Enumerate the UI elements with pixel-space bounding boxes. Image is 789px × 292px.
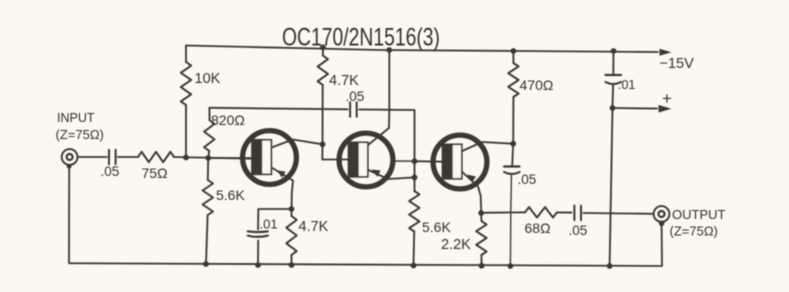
svg-text:5.6K: 5.6K [216, 187, 245, 203]
svg-text:+: + [662, 89, 672, 108]
svg-text:(Z=75Ω): (Z=75Ω) [56, 127, 104, 142]
svg-text:.05: .05 [346, 89, 365, 104]
svg-text:OC170/2N1516(3): OC170/2N1516(3) [282, 24, 440, 52]
svg-text:5.6K: 5.6K [422, 219, 451, 235]
svg-text:(Z=75Ω): (Z=75Ω) [670, 224, 718, 239]
svg-text:.05: .05 [101, 164, 120, 179]
svg-text:.05: .05 [518, 172, 537, 187]
svg-text:4.7K: 4.7K [299, 219, 329, 235]
svg-text:.01: .01 [260, 217, 278, 232]
svg-text:OUTPUT: OUTPUT [672, 207, 726, 222]
svg-text:68Ω: 68Ω [525, 220, 551, 236]
svg-text:INPUT: INPUT [57, 111, 95, 125]
svg-text:820Ω: 820Ω [211, 112, 245, 128]
svg-text:.01: .01 [618, 78, 635, 92]
svg-text:2.2K: 2.2K [441, 237, 471, 253]
svg-text:470Ω: 470Ω [520, 77, 554, 93]
svg-text:.05: .05 [569, 223, 588, 238]
svg-text:75Ω: 75Ω [142, 165, 168, 181]
svg-text:10K: 10K [195, 71, 221, 87]
svg-text:4.7K: 4.7K [329, 73, 359, 89]
svg-text:−15V: −15V [660, 56, 695, 72]
